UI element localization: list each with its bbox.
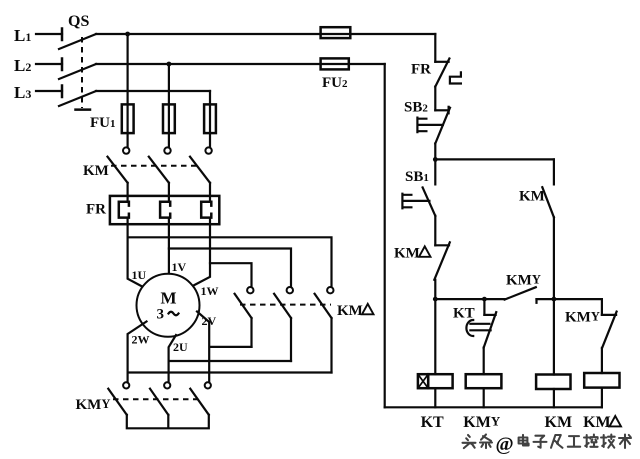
wire phase1 drop [126,34,128,147]
svg-text:KM: KM [83,163,109,179]
wire KMdelta NC to node B [434,280,436,299]
svg-text:@: @ [496,435,514,456]
junction dot L1 tap [125,32,130,37]
wire SB2 to node [434,144,436,160]
contact KMy NC interlock [565,310,617,348]
wire SB1 to KMdelta NC [434,216,436,246]
wire KMdelta2 bottom [290,318,292,361]
wire L3 bus [96,90,210,92]
wire 2W lead to KMy pole1 [128,322,332,383]
wire node A to KM aux branch [435,158,554,160]
wire node to KMy NC branch [554,299,602,315]
coil KMy (star contactor) [463,374,501,431]
contact KM NO aux (self hold) [519,159,554,217]
svg-text:QS: QS [68,13,89,30]
svg-text:SB1: SB1 [405,169,429,185]
contactor KM main contacts (3-pole NO) [83,147,212,182]
wire FR down phase1 + slant to 1U [128,218,144,288]
wire KT contact to KMy coil [483,348,485,375]
contactor KMdelta main contacts (3-pole NO) [235,287,374,319]
coil KT (time relay) [418,374,453,431]
svg-text:2U: 2U [173,340,188,354]
svg-text:3: 3 [157,307,165,323]
node L2 label [14,56,31,75]
coil KMdelta (delta contactor) [583,373,621,431]
wire bottom rail [385,406,602,408]
wire L2 lead [36,63,62,65]
wire KM aux down to coil [553,217,555,374]
pushbutton SB1 NO (start) [402,159,435,215]
wire phase2 drop [168,64,170,147]
svg-text:KMY: KMY [565,310,600,326]
svg-text:KMY: KMY [463,414,501,432]
junction dot node B [433,297,438,302]
fuse FU1 (three pole) [90,104,216,133]
motor M 3~ [132,260,219,354]
wire node B to KT branch [435,298,504,300]
svg-text:1V: 1V [172,260,187,274]
wire line C (phase3 to KMdelta contact 1) [210,263,252,287]
wire FR down phase3 + slant to 1W [194,218,211,286]
wire KM to FR phase2 [168,183,170,202]
svg-text:FU2: FU2 [322,75,348,91]
svg-text:SB2: SB2 [404,100,428,116]
junction dot node A [433,157,438,162]
node L1 label [14,26,31,45]
svg-text:KM: KM [583,414,611,431]
node L3 label [14,83,31,102]
junction dot L2 tap [167,62,172,67]
coil KM (main contactor) [536,375,572,432]
wire KMdelta1 bottom [250,318,252,347]
svg-text:KM: KM [394,246,420,262]
contact KMdelta NC interlock [394,242,450,279]
svg-text:KM: KM [337,303,363,319]
wire L1 bus [96,33,435,35]
wire L3 lead [36,90,62,92]
contact KMy NO aux (horizontal) [505,273,554,303]
watermark toutiao [463,435,632,456]
svg-text:1W: 1W [201,284,219,298]
wire line A (phase1 to KMdelta contact 3) [128,237,332,287]
svg-text:FR: FR [86,202,106,218]
wire KM to FR phase1 [126,183,128,202]
svg-text:KT: KT [421,414,444,431]
pushbutton SB2 NC (stop) [404,100,450,144]
wire node B down to KT coil [434,299,436,374]
wire L1 lead [36,33,62,35]
svg-text:KMY: KMY [76,397,111,413]
svg-text:M: M [161,289,177,308]
svg-text:1U: 1U [132,268,147,282]
wire KM to FR phase3 [209,183,211,202]
wire 2V lead to KMdelta1 bottom and KMy pole3 [197,312,252,383]
fuse FU2 upper (L1) [321,27,351,38]
svg-text:2W: 2W [132,333,150,347]
wire FR to SB2 [434,87,436,111]
wire KMdelta3 bottom [330,318,332,373]
wire star point bar [127,415,209,429]
junction dot KT branch [482,297,487,302]
wire L2 bus [96,63,385,65]
svg-text:KT: KT [453,305,475,321]
wire 2U lead to KMy pole2 [169,335,291,382]
switch QS (3-pole disconnect) [59,13,96,110]
contact FR NC (thermal relay trip) [411,59,461,87]
junction dot KM branch [552,297,557,302]
wire line B (phase2 to KMdelta contact 2) [169,249,291,287]
contact KT NO delayed close [453,299,496,348]
wire L1 corner into control [434,34,436,62]
svg-text:FU1: FU1 [90,115,116,131]
wire phase3 drop [209,91,211,147]
contactor KMy star contacts (3-pole NO) [76,382,211,415]
svg-text:KM: KM [545,414,573,431]
wire left rail (from FU2) [384,64,386,407]
fuse FU2 lower (L2) [321,58,349,91]
svg-text:KM: KM [519,189,545,205]
thermal overload relay FR (heater elements) [86,196,219,224]
wire KMy NC to KMdelta coil [601,348,603,373]
wire FR down phase2 to 1V [168,218,170,274]
svg-text:FR: FR [411,62,431,78]
